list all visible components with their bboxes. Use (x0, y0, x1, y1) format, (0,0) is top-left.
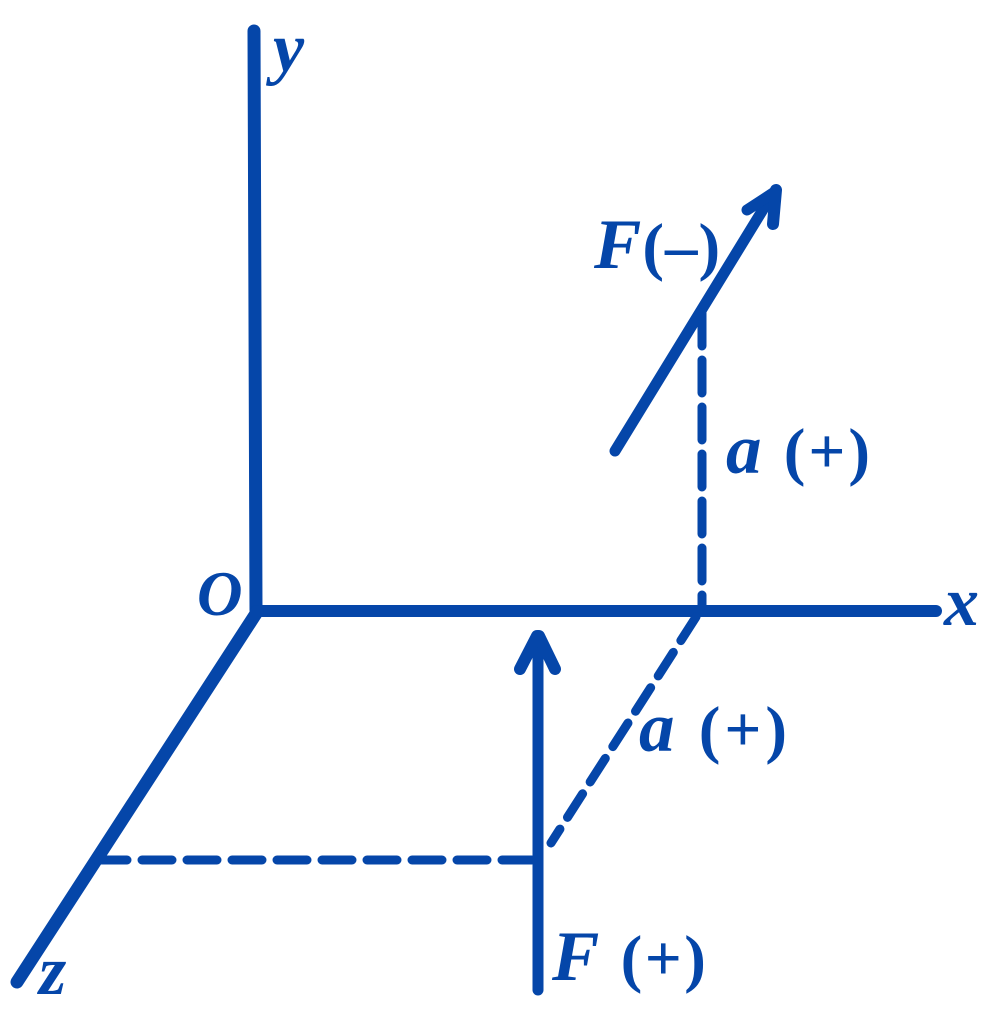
svg-text:F (+): F (+) (551, 918, 708, 996)
force vector F(-) arrowhead left barb (747, 191, 776, 210)
svg-text:a (+): a (+) (639, 689, 791, 767)
svg-text:F(–): F(–) (593, 206, 721, 284)
force vector F(-) shaft (615, 203, 767, 451)
dashed diagonal line a(+) lower (551, 617, 696, 843)
svg-text:O: O (197, 559, 243, 629)
svg-text:y: y (266, 10, 305, 87)
force vector F(+) shaft (533, 642, 544, 990)
svg-text:z: z (37, 933, 66, 1010)
force vector F(-) arrowhead down barb (773, 190, 776, 224)
x-axis (256, 605, 936, 617)
force vector F(+) arrowhead left barb (520, 636, 537, 669)
dashed horizontal line (97, 856, 546, 865)
z-axis (17, 612, 257, 982)
y-axis (254, 31, 256, 610)
dashed vertical line a(+) upper (698, 313, 707, 606)
svg-text:x: x (943, 564, 979, 641)
force vector F(+) arrowhead right barb (539, 636, 555, 669)
svg-text:a (+): a (+) (726, 411, 873, 489)
